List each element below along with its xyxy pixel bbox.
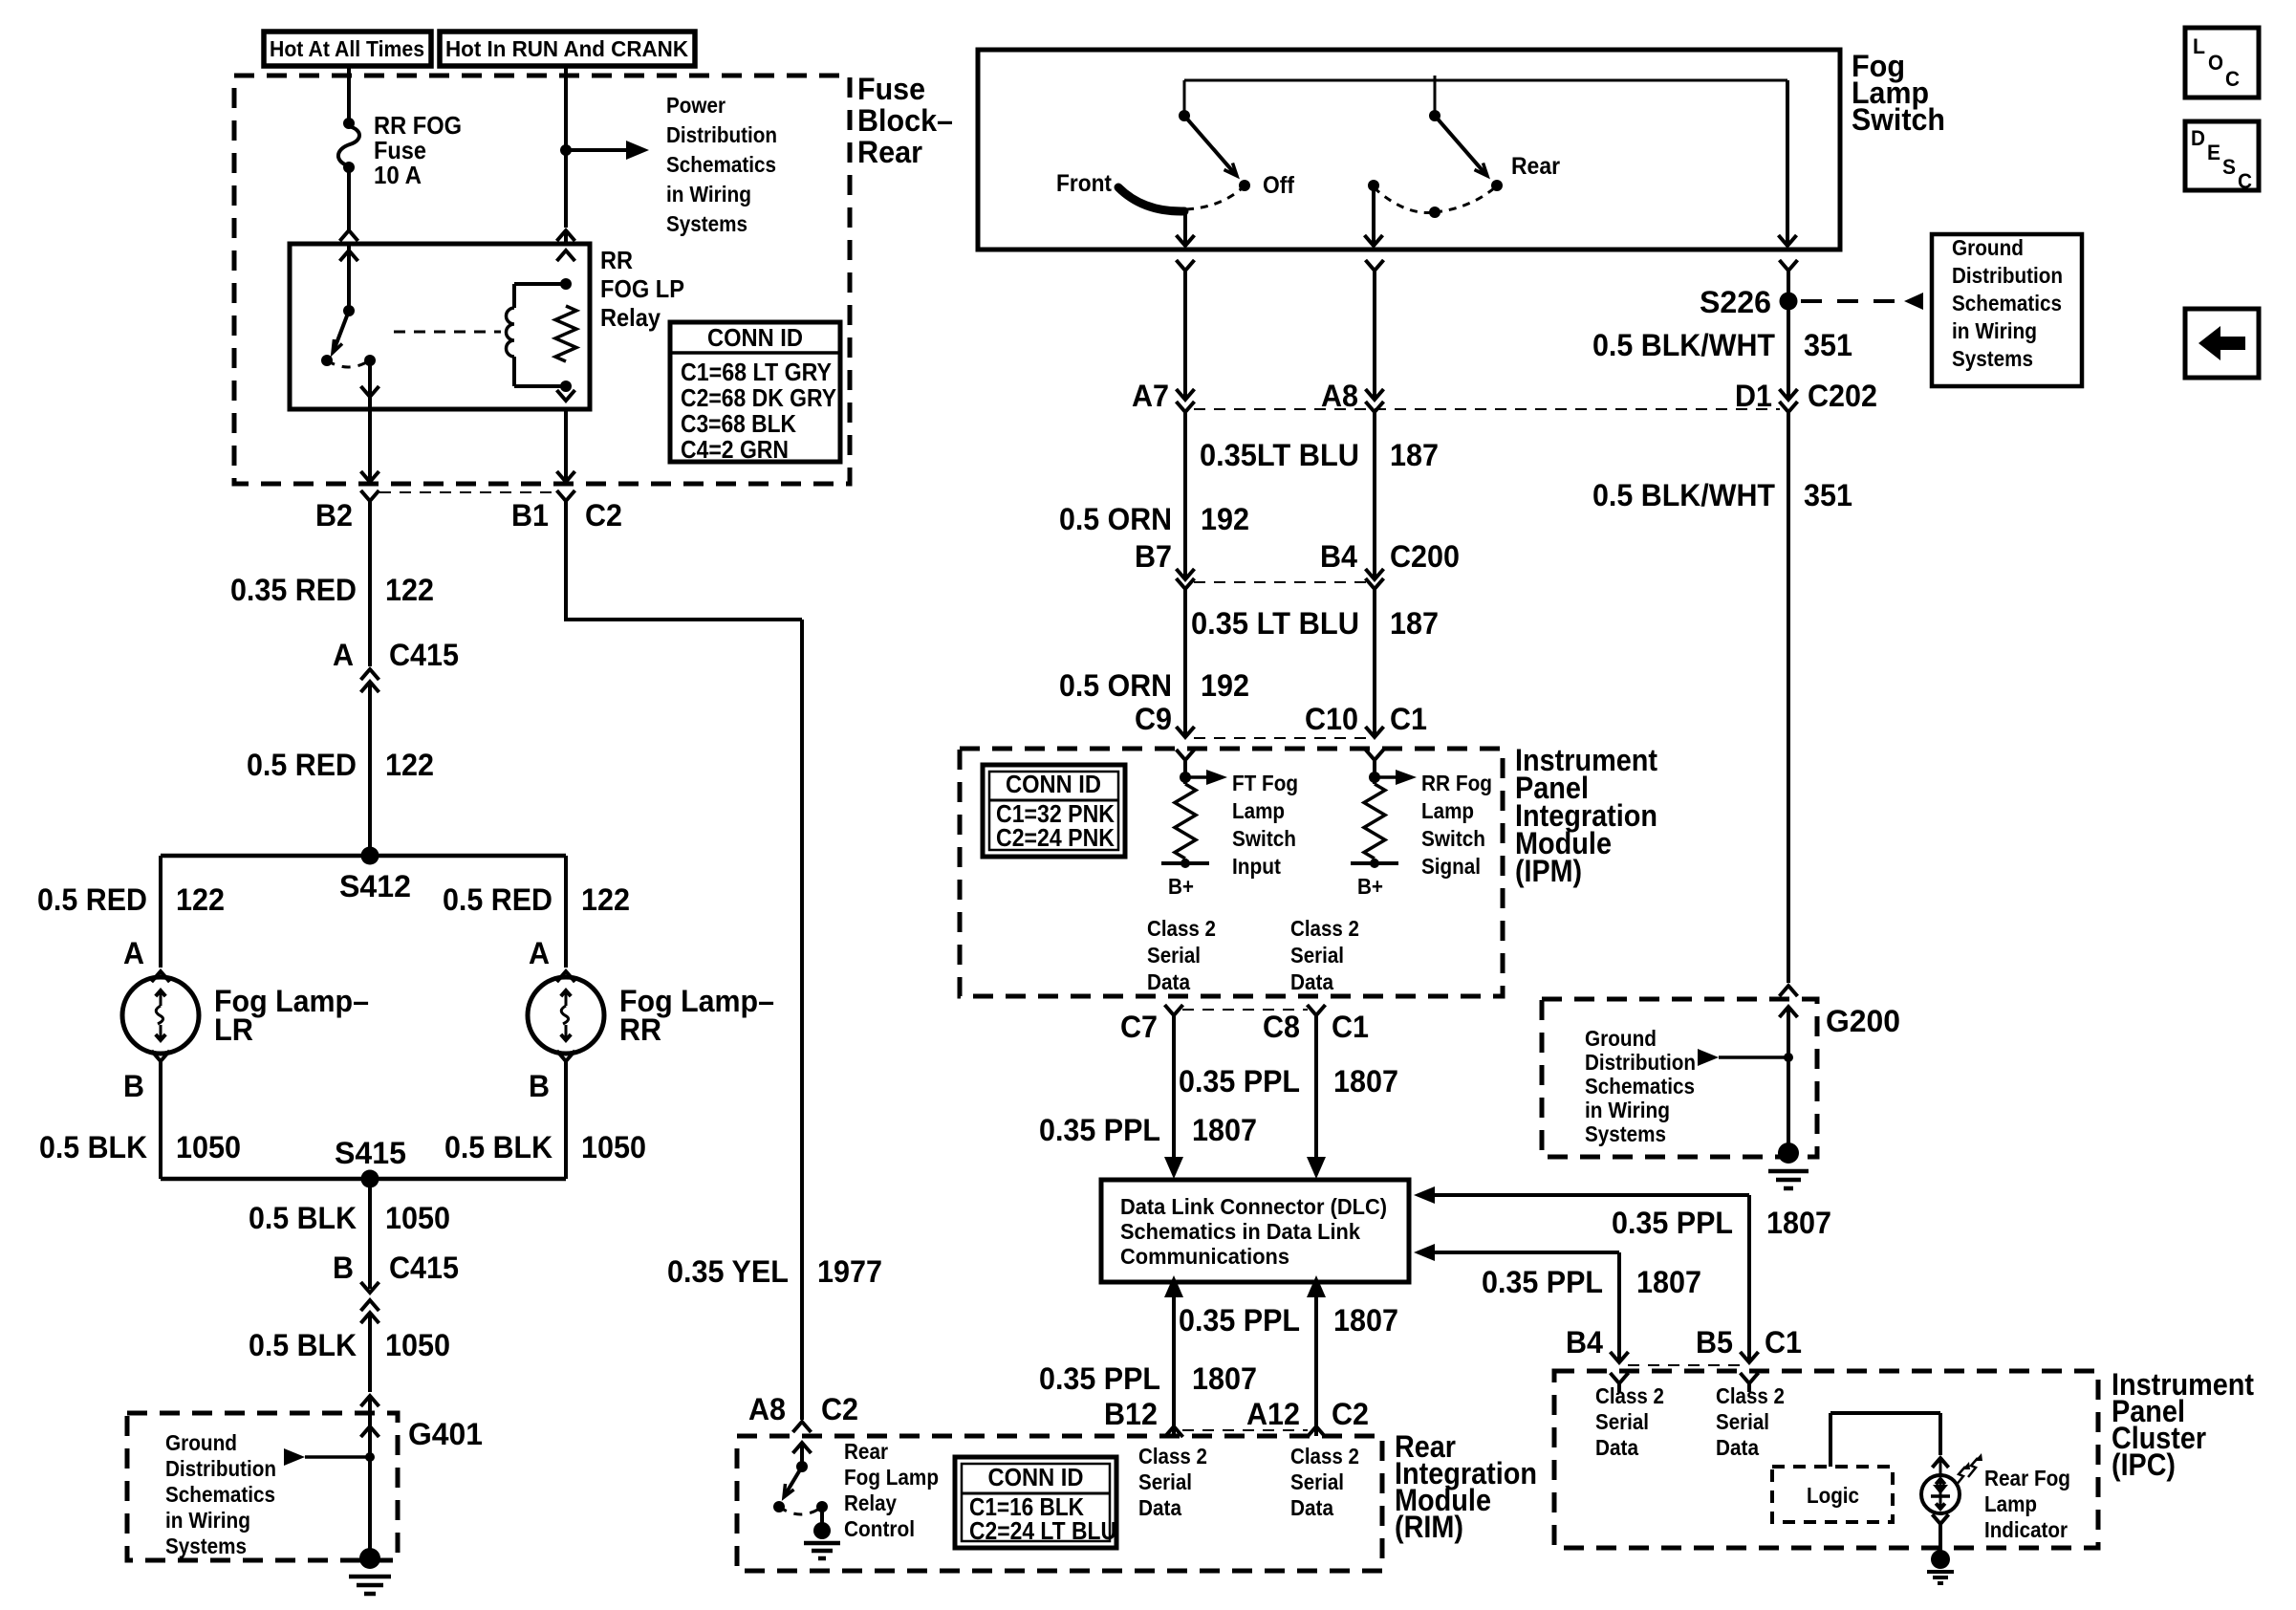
svg-text:Switch: Switch	[1852, 102, 1945, 137]
svg-text:0.5 BLK: 0.5 BLK	[444, 1130, 552, 1164]
svg-text:Ground: Ground	[1952, 235, 2024, 260]
wire logic to indicator	[1829, 1413, 1832, 1467]
svg-text:C7: C7	[1120, 1010, 1158, 1044]
svg-text:0.35 PPL: 0.35 PPL	[1039, 1361, 1160, 1396]
relay switch contact	[340, 250, 358, 261]
svg-text:Distribution: Distribution	[165, 1456, 276, 1481]
wire B4 to C10	[1373, 589, 1376, 734]
relay resistor	[557, 250, 575, 261]
svg-text:RR: RR	[600, 246, 633, 274]
svg-text:B: B	[333, 1251, 354, 1285]
svg-text:Serial: Serial	[1716, 1409, 1769, 1434]
wire from Hot In RUN And CRANK down	[564, 66, 568, 228]
svg-text:C9: C9	[1135, 702, 1172, 736]
svg-text:Data Link Connector (DLC): Data Link Connector (DLC)	[1120, 1194, 1387, 1219]
svg-text:S226: S226	[1700, 285, 1771, 319]
svg-text:S412: S412	[339, 869, 411, 903]
svg-text:(RIM): (RIM)	[1395, 1510, 1463, 1544]
wire relay to B2 connector	[368, 409, 372, 480]
svg-text:1807: 1807	[1636, 1265, 1701, 1299]
svg-text:Class 2: Class 2	[1147, 916, 1216, 941]
ground symbol G200	[1778, 1142, 1799, 1164]
svg-text:1050: 1050	[385, 1328, 450, 1362]
svg-text:C1: C1	[1390, 702, 1427, 736]
front position thick arc	[1118, 187, 1184, 211]
DESC box	[2185, 121, 2259, 190]
svg-text:A12: A12	[1246, 1397, 1300, 1431]
svg-text:Systems: Systems	[666, 211, 747, 236]
svg-text:0.35 YEL: 0.35 YEL	[667, 1254, 789, 1289]
svg-text:C415: C415	[389, 638, 459, 672]
svg-text:C3=68 BLK: C3=68 BLK	[681, 409, 796, 438]
svg-text:1977: 1977	[817, 1254, 882, 1289]
svg-text:Distribution: Distribution	[666, 122, 777, 147]
svg-text:C10: C10	[1305, 702, 1358, 736]
svg-text:C: C	[2225, 67, 2240, 91]
wire C7 to DLC	[1172, 1015, 1176, 1159]
lamp Fog Lamp-RR	[528, 977, 604, 1054]
svg-text:Class 2: Class 2	[1595, 1383, 1664, 1408]
svg-text:Schematics: Schematics	[1952, 291, 2062, 315]
svg-text:Lamp: Lamp	[1984, 1491, 2037, 1516]
svg-text:A7: A7	[1132, 379, 1169, 413]
svg-text:C200: C200	[1390, 539, 1460, 574]
svg-text:Distribution: Distribution	[1952, 263, 2063, 288]
svg-text:Control: Control	[844, 1516, 915, 1541]
Instrument Panel Integration Module dashed box	[960, 749, 1503, 996]
svg-text:Fuse: Fuse	[857, 72, 925, 106]
svg-text:Data: Data	[1138, 1495, 1181, 1520]
splice S412	[161, 854, 566, 859]
svg-text:Serial: Serial	[1147, 943, 1201, 968]
svg-text:Hot In RUN And CRANK: Hot In RUN And CRANK	[445, 36, 688, 61]
svg-text:1050: 1050	[385, 1201, 450, 1235]
arrow to Power Distribution Schematics	[566, 148, 626, 152]
svg-text:A: A	[123, 936, 144, 970]
svg-text:Front: Front	[1056, 170, 1113, 197]
wire D1 to G200 entry	[1780, 986, 1798, 996]
CONN ID table fuse block	[670, 322, 840, 462]
svg-text:FOG LP: FOG LP	[600, 274, 684, 303]
svg-text:0.5 BLK: 0.5 BLK	[249, 1328, 357, 1362]
svg-text:B+: B+	[1357, 874, 1383, 899]
svg-text:Class 2: Class 2	[1138, 1444, 1207, 1469]
Logic dashed box	[1772, 1467, 1893, 1522]
relay K1 RR FOG LP Relay box	[290, 244, 590, 409]
svg-text:CONN ID: CONN ID	[707, 323, 803, 352]
wire B12 to DLC	[1172, 1295, 1176, 1426]
svg-text:Logic: Logic	[1807, 1483, 1859, 1508]
svg-text:C1=68 LT GRY: C1=68 LT GRY	[681, 358, 832, 386]
svg-text:FT Fog: FT Fog	[1232, 771, 1298, 795]
svg-text:Off: Off	[1263, 172, 1295, 199]
svg-text:0.35 LT BLU: 0.35 LT BLU	[1191, 606, 1359, 641]
fog lamp RR pin B	[557, 1051, 575, 1061]
dashed reference from S226	[1801, 299, 1904, 303]
svg-text:D: D	[2191, 126, 2205, 150]
splice S415	[161, 1177, 566, 1182]
svg-text:Relay: Relay	[600, 303, 661, 332]
svg-text:Schematics in Data Link: Schematics in Data Link	[1120, 1219, 1360, 1244]
svg-text:G200: G200	[1826, 1004, 1900, 1038]
svg-text:CONN ID: CONN ID	[988, 1463, 1084, 1491]
left branch wire 0.5 RED 122	[159, 856, 162, 968]
svg-text:Serial: Serial	[1138, 1469, 1192, 1494]
switch internal bus	[1184, 79, 1787, 82]
svg-text:1807: 1807	[1766, 1206, 1831, 1240]
CONN ID table IPM	[983, 765, 1125, 857]
svg-text:0.35 PPL: 0.35 PPL	[1039, 1113, 1160, 1147]
CONN ID table RIM	[955, 1457, 1116, 1548]
svg-text:C: C	[2238, 169, 2252, 193]
svg-text:L: L	[2193, 34, 2205, 58]
svg-text:0.5 BLK/WHT: 0.5 BLK/WHT	[1592, 478, 1775, 512]
svg-text:C2=24 LT BLU: C2=24 LT BLU	[969, 1516, 1116, 1545]
rear fog lamp relay control switch	[793, 1443, 812, 1453]
switch right pole	[1429, 110, 1440, 121]
svg-text:Systems: Systems	[1585, 1121, 1666, 1146]
A8 contact and dashed arc	[1368, 180, 1379, 191]
wire from Hot At All Times to fuse	[347, 66, 351, 123]
svg-text:0.5 ORN: 0.5 ORN	[1059, 502, 1172, 536]
svg-text:Ground: Ground	[1585, 1026, 1657, 1051]
svg-text:C8: C8	[1263, 1010, 1300, 1044]
ground distribution box G401	[127, 1413, 398, 1560]
fuse F1 RR FOG 10A	[343, 118, 355, 129]
svg-text:A8: A8	[1321, 379, 1358, 413]
relay output wire B2 side	[368, 360, 372, 392]
FT fog lamp switch input resistor	[1183, 760, 1187, 784]
ground symbol at IPC	[1931, 1550, 1950, 1569]
svg-text:B5: B5	[1696, 1325, 1733, 1360]
svg-text:Signal: Signal	[1421, 854, 1481, 879]
LOC box	[2185, 28, 2259, 98]
box label: Hot At All Times	[264, 32, 431, 66]
Fuse Block - Rear dashed box	[234, 76, 850, 484]
svg-text:Rear: Rear	[844, 1439, 888, 1464]
svg-text:Schematics: Schematics	[165, 1482, 275, 1507]
svg-text:in Wiring: in Wiring	[666, 182, 751, 207]
svg-text:C202: C202	[1808, 379, 1877, 413]
wire A8 inside switch	[1372, 185, 1375, 243]
wire A8 below switch	[1366, 260, 1384, 271]
svg-text:B: B	[123, 1069, 144, 1103]
back arrow box	[2185, 309, 2259, 378]
svg-text:Rear Fog: Rear Fog	[1984, 1466, 2070, 1490]
svg-text:B4: B4	[1566, 1325, 1603, 1360]
svg-text:E: E	[2207, 141, 2220, 164]
svg-text:C2: C2	[821, 1392, 858, 1426]
ground distribution box G200	[1542, 999, 1817, 1157]
wire A7 below switch	[1177, 260, 1195, 271]
svg-text:Power: Power	[666, 93, 726, 118]
wire D1 inside switch	[1786, 80, 1789, 243]
RR fog lamp switch signal resistor	[1373, 760, 1376, 784]
svg-text:Indicator: Indicator	[1984, 1517, 2068, 1542]
node power distribution tap	[560, 144, 572, 156]
svg-text:(IPC): (IPC)	[2112, 1447, 2176, 1482]
svg-text:Schematics: Schematics	[1585, 1074, 1695, 1099]
svg-text:0.35 PPL: 0.35 PPL	[1179, 1303, 1300, 1338]
arrow ground distribution reference	[284, 1448, 305, 1466]
svg-text:CONN ID: CONN ID	[1006, 770, 1101, 798]
svg-text:in Wiring: in Wiring	[1952, 318, 2037, 343]
arrow ground distribution reference G200	[1698, 1049, 1719, 1066]
box label: Hot In RUN And CRANK	[440, 32, 695, 66]
svg-text:Lamp: Lamp	[1421, 798, 1474, 823]
svg-text:B4: B4	[1320, 539, 1357, 574]
svg-text:Data: Data	[1716, 1435, 1759, 1460]
wire A8 to B4	[1373, 412, 1376, 577]
wire DLC to B5	[1414, 1186, 1435, 1204]
svg-text:A: A	[529, 936, 550, 970]
wire D1 below switch	[1780, 260, 1798, 271]
svg-text:1807: 1807	[1333, 1064, 1398, 1099]
lamp Fog Lamp-LR	[122, 977, 199, 1054]
svg-text:Block–: Block–	[857, 103, 953, 138]
svg-text:C415: C415	[389, 1251, 459, 1285]
wire fuse to relay	[347, 167, 351, 230]
Data Link Connector reference box	[1101, 1180, 1409, 1282]
Rear Integration Module dashed box	[737, 1436, 1382, 1571]
svg-text:Data: Data	[1595, 1435, 1638, 1460]
svg-text:1807: 1807	[1192, 1113, 1257, 1147]
svg-text:122: 122	[385, 748, 434, 782]
svg-text:0.5 BLK/WHT: 0.5 BLK/WHT	[1592, 328, 1775, 362]
svg-text:Switch: Switch	[1421, 826, 1485, 851]
contact Rear	[1491, 180, 1503, 191]
connector C2 fuse block B2/B1	[361, 490, 379, 501]
svg-text:351: 351	[1804, 478, 1852, 512]
wire C8 to DLC	[1314, 1015, 1318, 1159]
svg-text:Communications: Communications	[1120, 1244, 1289, 1269]
wire relay to B1 connector	[564, 409, 568, 480]
Instrument Panel Cluster dashed box	[1554, 1371, 2098, 1548]
svg-text:A8: A8	[748, 1392, 786, 1426]
relay coil	[512, 284, 516, 308]
splice S226	[1780, 293, 1798, 311]
LED Rear Fog Lamp Indicator	[1932, 1458, 1948, 1468]
svg-text:C4=2 GRN: C4=2 GRN	[681, 435, 789, 464]
svg-text:D1: D1	[1735, 379, 1772, 413]
svg-text:(IPM): (IPM)	[1515, 854, 1582, 888]
svg-text:Serial: Serial	[1290, 943, 1344, 968]
svg-text:Serial: Serial	[1595, 1409, 1649, 1434]
LED to ground	[1932, 1514, 1948, 1524]
svg-text:B12: B12	[1104, 1397, 1158, 1431]
svg-text:1807: 1807	[1192, 1361, 1257, 1396]
svg-text:Hot At All Times: Hot At All Times	[270, 36, 424, 61]
svg-text:O: O	[2208, 51, 2223, 75]
svg-text:C2=24 PNK: C2=24 PNK	[996, 823, 1115, 852]
right branch wire 0.5 RED 122	[564, 856, 568, 968]
svg-text:S415: S415	[335, 1136, 406, 1170]
svg-text:Serial: Serial	[1290, 1469, 1344, 1494]
svg-text:Class 2: Class 2	[1716, 1383, 1785, 1408]
dashed arc to Off	[1186, 189, 1241, 209]
svg-text:187: 187	[1390, 606, 1439, 641]
svg-text:122: 122	[581, 882, 630, 917]
svg-text:0.5 BLK: 0.5 BLK	[39, 1130, 147, 1164]
ground distribution box top right	[1932, 234, 2082, 386]
svg-text:in Wiring: in Wiring	[1585, 1098, 1670, 1122]
light emission arrows	[1956, 1467, 1965, 1486]
wire D1 to G200 0.5 BLK/WHT 351	[1787, 412, 1790, 983]
svg-text:Data: Data	[1147, 969, 1190, 994]
svg-text:0.5 BLK: 0.5 BLK	[249, 1201, 357, 1235]
svg-text:0.5 RED: 0.5 RED	[443, 882, 552, 917]
svg-text:1807: 1807	[1333, 1303, 1398, 1338]
svg-text:Fog Lamp: Fog Lamp	[844, 1465, 939, 1490]
wire B7 to C9	[1183, 589, 1187, 734]
switch left pole	[1179, 110, 1190, 121]
svg-text:187: 187	[1390, 438, 1439, 472]
wire 0.35 RED 122	[368, 535, 372, 666]
svg-text:Systems: Systems	[165, 1534, 247, 1558]
svg-text:1050: 1050	[581, 1130, 646, 1164]
svg-text:C2=68 DK GRY: C2=68 DK GRY	[681, 383, 836, 412]
svg-text:B1: B1	[511, 498, 549, 533]
svg-text:122: 122	[385, 573, 434, 607]
svg-text:C2: C2	[585, 498, 622, 533]
svg-text:C2: C2	[1332, 1397, 1369, 1431]
svg-text:0.5 ORN: 0.5 ORN	[1059, 668, 1172, 703]
svg-text:B2: B2	[315, 498, 353, 533]
svg-text:LR: LR	[214, 1012, 253, 1047]
svg-text:Relay: Relay	[844, 1490, 897, 1515]
svg-text:B: B	[529, 1069, 550, 1103]
svg-text:Lamp: Lamp	[1232, 798, 1285, 823]
svg-text:Systems: Systems	[1952, 346, 2033, 371]
wire DLC to B4	[1414, 1244, 1435, 1261]
svg-text:Input: Input	[1232, 854, 1281, 879]
wire B1 to rear fog relay control	[564, 501, 568, 620]
svg-text:Data: Data	[1290, 1495, 1333, 1520]
svg-text:S: S	[2222, 155, 2236, 179]
svg-text:0.35 RED: 0.35 RED	[230, 573, 357, 607]
svg-text:0.5 RED: 0.5 RED	[247, 748, 357, 782]
svg-text:B+: B+	[1168, 874, 1194, 899]
svg-text:0.35 PPL: 0.35 PPL	[1612, 1206, 1733, 1240]
Fog Lamp Switch box	[978, 50, 1840, 250]
ground wire 0.5 BLK 1050	[368, 1179, 372, 1289]
svg-text:Schematics: Schematics	[666, 152, 776, 177]
svg-text:Class 2: Class 2	[1290, 1444, 1359, 1469]
fog lamp LR pin B	[152, 1051, 170, 1061]
wire A12 to DLC	[1314, 1295, 1318, 1426]
svg-text:Data: Data	[1290, 969, 1333, 994]
svg-text:10 A: 10 A	[374, 161, 422, 189]
svg-text:122: 122	[176, 882, 225, 917]
svg-text:0.35 PPL: 0.35 PPL	[1179, 1064, 1300, 1099]
svg-text:A: A	[333, 638, 354, 672]
svg-text:C1: C1	[1332, 1010, 1369, 1044]
svg-text:351: 351	[1804, 328, 1852, 362]
svg-text:192: 192	[1201, 668, 1249, 703]
relay coil dashed link	[394, 331, 501, 334]
svg-text:Rear: Rear	[857, 135, 922, 169]
svg-text:0.5 RED: 0.5 RED	[37, 882, 147, 917]
ground symbol G401	[359, 1548, 380, 1569]
ground at RIM	[820, 1507, 824, 1528]
svg-text:in Wiring: in Wiring	[165, 1508, 250, 1533]
svg-text:Switch: Switch	[1232, 826, 1296, 851]
svg-text:G401: G401	[408, 1417, 483, 1451]
contact Off	[1239, 180, 1250, 191]
svg-text:Ground: Ground	[165, 1430, 237, 1455]
svg-text:RR Fog: RR Fog	[1421, 771, 1492, 795]
svg-text:C1: C1	[1765, 1325, 1802, 1360]
svg-text:B7: B7	[1135, 539, 1172, 574]
svg-text:0.35LT BLU: 0.35LT BLU	[1200, 438, 1359, 472]
svg-text:Distribution: Distribution	[1585, 1050, 1696, 1075]
svg-text:0.35 PPL: 0.35 PPL	[1482, 1265, 1603, 1299]
svg-text:192: 192	[1201, 502, 1249, 536]
wire A7 to B7	[1183, 412, 1187, 577]
svg-text:RR: RR	[619, 1012, 661, 1047]
ground G401 entry	[361, 1396, 379, 1406]
wire A7 inside switch	[1183, 211, 1187, 243]
svg-text:Rear: Rear	[1511, 153, 1560, 180]
svg-text:1050: 1050	[176, 1130, 241, 1164]
svg-text:Class 2: Class 2	[1290, 916, 1359, 941]
